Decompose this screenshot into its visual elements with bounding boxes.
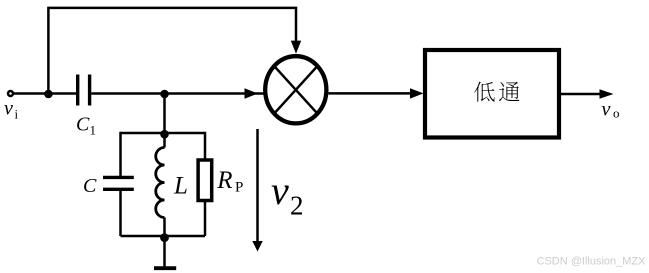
ground	[154, 266, 176, 270]
node junction at tank tap	[160, 90, 169, 99]
svg-text:1: 1	[90, 123, 97, 138]
svg-text:2: 2	[290, 191, 304, 221]
capacitor C1 plates	[78, 75, 90, 106]
capacitor C plates	[103, 177, 134, 189]
wire right branch upper	[204, 132, 207, 159]
label 低 (low) glyph path	[474, 82, 494, 102]
arrowhead feedback into mixer top	[291, 41, 301, 54]
svg-text:CSDN @Illusion_MZX: CSDN @Illusion_MZX	[537, 256, 647, 268]
wire junction down to tank	[163, 94, 166, 134]
arrowhead output	[600, 89, 614, 98]
wire C1 to mixer	[91, 92, 263, 95]
wire left branch lower	[119, 191, 122, 236]
mixer X stroke 2	[274, 66, 317, 114]
wire right branch lower	[204, 202, 207, 237]
terminal vi open circle	[8, 91, 13, 96]
lowpass box	[425, 50, 559, 138]
svg-text:R: R	[216, 167, 232, 194]
wire lowpass to output	[560, 93, 606, 96]
svg-text:o: o	[613, 106, 620, 121]
svg-text:i: i	[15, 107, 19, 122]
mixer X stroke 1	[274, 66, 317, 114]
svg-text:C: C	[83, 175, 97, 197]
resistor RP body	[198, 160, 212, 201]
wire coil top stub	[163, 134, 166, 148]
svg-text:v: v	[602, 99, 611, 121]
svg-text:v: v	[271, 168, 289, 213]
arrowhead into lowpass box	[410, 88, 424, 98]
svg-text:v: v	[4, 98, 13, 120]
node junction at feedback tap	[44, 90, 53, 99]
wire tank top rail	[121, 132, 206, 135]
node junction tank top	[160, 130, 169, 139]
mixer U1 circle	[265, 56, 326, 123]
wire tank bottom rail	[121, 235, 206, 238]
arrow v2	[256, 129, 259, 242]
inductor L coil	[156, 148, 165, 218]
svg-text:C: C	[76, 114, 90, 136]
arrowhead into mixer left	[245, 88, 259, 98]
svg-text:L: L	[173, 173, 188, 200]
node junction tank bottom	[160, 233, 169, 242]
wire mixer to lowpass	[329, 92, 418, 95]
wire coil bottom stub	[163, 218, 166, 237]
wire feedback loop	[48, 8, 296, 94]
svg-text:P: P	[235, 180, 243, 196]
wire left branch upper	[119, 132, 122, 176]
wire ground stem	[163, 236, 166, 266]
wire input to C1	[14, 92, 77, 95]
label 通 (pass) glyph path	[499, 82, 520, 102]
